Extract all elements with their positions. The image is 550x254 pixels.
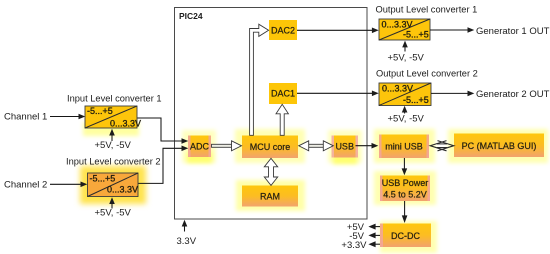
wire mini USB to USB Power bbox=[402, 158, 408, 175]
svg-text:0...3.3V: 0...3.3V bbox=[382, 20, 413, 30]
input level converter 1 bbox=[85, 106, 141, 129]
svg-text:-5...+5: -5...+5 bbox=[87, 106, 113, 116]
output level converter 1 bbox=[379, 19, 430, 40]
svg-text:+5V, -5V: +5V, -5V bbox=[388, 53, 425, 64]
block mini USB bbox=[379, 135, 429, 159]
supply arrow output converter 1 bbox=[402, 41, 408, 52]
svg-text:Output Level converter 2: Output Level converter 2 bbox=[376, 69, 478, 79]
svg-text:Generator 1 OUT: Generator 1 OUT bbox=[476, 26, 550, 37]
PIC24 box bbox=[175, 8, 368, 220]
svg-text:USB Power: USB Power bbox=[382, 178, 429, 188]
bus ADC to MCU bbox=[212, 141, 242, 151]
svg-text:0...3.3V: 0...3.3V bbox=[382, 84, 413, 94]
svg-text:Input Level converter 1: Input Level converter 1 bbox=[67, 94, 162, 104]
block RAM bbox=[242, 186, 298, 207]
glow ADC bbox=[182, 130, 216, 163]
bus MCU to DAC1 bbox=[276, 104, 288, 135]
block DAC1 bbox=[269, 83, 297, 104]
glow PC bbox=[448, 129, 548, 163]
glow mini USB bbox=[374, 129, 435, 163]
svg-text:3.3V: 3.3V bbox=[177, 236, 197, 247]
wire USB Power to DC-DC bbox=[402, 201, 408, 223]
svg-text:-5...+5: -5...+5 bbox=[403, 95, 429, 105]
bus MCU to DAC2 bbox=[250, 24, 269, 135]
bus MCU to RAM bidirectional bbox=[264, 158, 277, 185]
block USB bbox=[332, 136, 359, 158]
glow RAM bbox=[236, 180, 305, 211]
glow input converter 2 bbox=[80, 166, 146, 204]
svg-text:ADC: ADC bbox=[190, 142, 210, 152]
svg-text:0...3.3V: 0...3.3V bbox=[110, 119, 141, 129]
wire DAC2 to output converter 1 bbox=[297, 28, 379, 34]
svg-text:mini USB: mini USB bbox=[385, 142, 423, 152]
block DAC2 bbox=[269, 20, 297, 40]
wire DC-DC +3.3V out bbox=[368, 241, 380, 247]
svg-text:USB: USB bbox=[335, 142, 354, 152]
input level converter 2 bbox=[88, 173, 139, 197]
svg-text:DC-DC: DC-DC bbox=[391, 231, 420, 241]
svg-text:PC (MATLAB GUI): PC (MATLAB GUI) bbox=[462, 141, 537, 151]
glow DC-DC bbox=[380, 221, 437, 253]
wire DAC1 to output converter 2 bbox=[297, 91, 379, 97]
svg-text:Channel 1: Channel 1 bbox=[4, 112, 47, 123]
wire DC-DC -5V out bbox=[368, 232, 380, 238]
glow USB Power bbox=[374, 171, 436, 205]
svg-text:+5V, -5V: +5V, -5V bbox=[95, 140, 132, 151]
svg-text:Output Level converter 1: Output Level converter 1 bbox=[376, 5, 478, 15]
wire USB to mini USB bbox=[356, 143, 379, 149]
wire converter1 to Generator 1 bbox=[430, 27, 474, 33]
svg-text:+5V, -5V: +5V, -5V bbox=[388, 114, 425, 125]
bus MCU to USB bidirectional bbox=[299, 141, 334, 151]
svg-text:0...3.3V: 0...3.3V bbox=[107, 185, 138, 195]
svg-text:Input Level converter 2: Input Level converter 2 bbox=[66, 157, 161, 167]
bus mini USB to PC bidirectional bbox=[430, 141, 454, 151]
svg-text:MCU core: MCU core bbox=[250, 142, 291, 152]
svg-text:RAM: RAM bbox=[260, 192, 280, 202]
svg-text:-5...+5: -5...+5 bbox=[90, 174, 116, 184]
glow USB bbox=[328, 130, 362, 164]
svg-text:+3.3V: +3.3V bbox=[341, 240, 367, 251]
svg-text:Generator 2 OUT: Generator 2 OUT bbox=[476, 89, 550, 100]
svg-text:PIC24: PIC24 bbox=[179, 11, 203, 21]
supply arrow converter 2 bbox=[109, 197, 115, 208]
block USB Power bbox=[380, 176, 430, 202]
svg-text:-5...+5: -5...+5 bbox=[403, 30, 429, 40]
wire Channel1 to converter1 bbox=[50, 114, 85, 120]
wire DC-DC +5V out bbox=[368, 224, 380, 230]
svg-text:DAC1: DAC1 bbox=[271, 89, 295, 99]
supply arrow converter 1 bbox=[109, 129, 115, 141]
wire Channel2 to converter2 bbox=[50, 182, 87, 188]
block PC (MATLAB GUI) bbox=[454, 134, 544, 158]
wire converter2 to Generator 2 bbox=[431, 91, 474, 97]
wire converter2 to ADC bbox=[138, 146, 188, 184]
svg-text:4.5 to 5.2V: 4.5 to 5.2V bbox=[383, 190, 427, 200]
svg-text:DAC2: DAC2 bbox=[271, 26, 295, 36]
supply arrow output converter 2 bbox=[402, 106, 408, 114]
glow MCU core bbox=[235, 129, 305, 163]
svg-text:+5V, -5V: +5V, -5V bbox=[95, 208, 132, 219]
svg-text:Channel 2: Channel 2 bbox=[4, 180, 47, 191]
block MCU core bbox=[242, 136, 298, 159]
block ADC bbox=[188, 136, 211, 158]
supply arrow 3.3V into PIC24 bbox=[182, 220, 188, 232]
wire converter1 to ADC bbox=[137, 118, 188, 144]
output level converter 2 bbox=[379, 83, 431, 106]
block DC-DC bbox=[380, 224, 431, 248]
glow input converter 1 bbox=[83, 122, 139, 136]
